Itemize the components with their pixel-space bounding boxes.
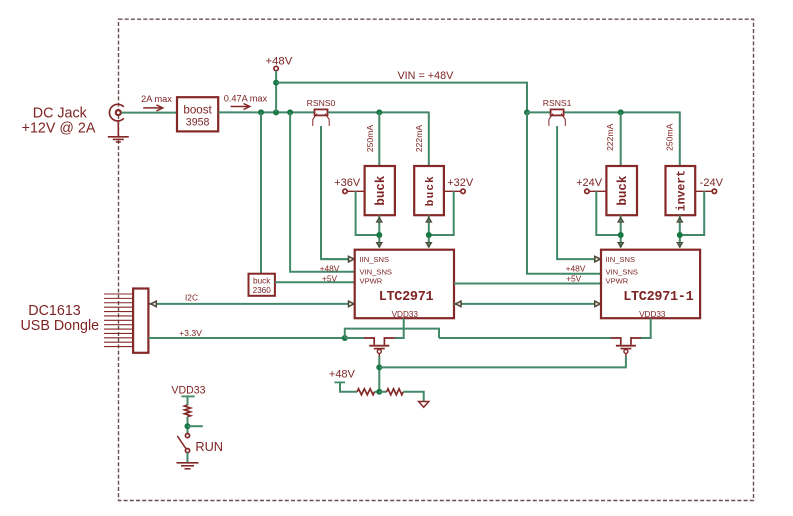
wire R3 to switch xyxy=(187,417,189,434)
arrow 2A max xyxy=(143,105,163,111)
svg-text:IIN_SNS: IIN_SNS xyxy=(360,255,390,264)
svg-text:I2C: I2C xyxy=(185,293,198,303)
wire +3.3V from dongle xyxy=(148,337,344,339)
svg-text:boost: boost xyxy=(183,104,212,117)
arrow I2C at dongle xyxy=(151,301,157,307)
resistor R3 xyxy=(185,405,191,417)
svg-text:+36V: +36V xyxy=(334,177,361,189)
label +5V (VPWR U1) xyxy=(322,273,338,283)
ground (divider) xyxy=(419,402,429,408)
wire VIN_SNS U6 +48V xyxy=(527,112,601,273)
terminal +24V xyxy=(576,177,606,193)
label DC1613 USB Dongle xyxy=(20,303,99,334)
label 250mA (U8) xyxy=(665,123,675,150)
svg-text:LTC2971: LTC2971 xyxy=(379,290,434,305)
node junction VIN/RSNS1 xyxy=(524,109,530,115)
arrow into U8 bottom xyxy=(677,218,682,222)
svg-text:+48V: +48V xyxy=(265,55,292,67)
wire +36V sense tap xyxy=(356,191,380,235)
boost converter U2 (LT3958) xyxy=(177,97,218,131)
terminal +36V xyxy=(334,177,364,193)
svg-text:USB Dongle: USB Dongle xyxy=(20,318,99,334)
svg-text:+48V: +48V xyxy=(320,264,340,274)
wire RSNS1 sense line xyxy=(557,126,597,259)
wire jack to boost xyxy=(121,112,177,114)
transistor Q2 xyxy=(611,337,642,356)
IC U6 LTC2971-1 xyxy=(601,250,700,319)
wire switch to ground xyxy=(187,453,189,463)
board outline (dashed border) xyxy=(119,19,754,500)
label +48V (VIN_SNS U1) xyxy=(320,264,340,274)
arrow bus into U1 xyxy=(456,301,462,307)
label 2A max xyxy=(141,94,172,104)
svg-text:+12V @ 2A: +12V @ 2A xyxy=(22,121,96,137)
ground (jack) xyxy=(108,121,129,142)
wire R1 to node xyxy=(375,391,380,393)
wire -24V sense tap xyxy=(680,191,704,235)
svg-text:+48V: +48V xyxy=(329,368,356,380)
label RUN xyxy=(195,439,223,454)
label +5V (VPWR U6) xyxy=(566,274,582,284)
buck converter U5 (LTM4625/2360) xyxy=(249,274,275,296)
wire node to R2 xyxy=(379,391,386,393)
transistor Q1 xyxy=(364,337,395,356)
svg-text:2A max: 2A max xyxy=(141,94,172,104)
svg-text:VPWR: VPWR xyxy=(606,276,629,285)
resistor R1 xyxy=(357,389,374,395)
resistor RSNS1 (sense) xyxy=(543,98,572,126)
wire Q1 bulk to rail xyxy=(378,356,380,392)
resistor R2 xyxy=(387,389,404,395)
switch S1 RUN xyxy=(177,434,189,453)
svg-text:+3.3V: +3.3V xyxy=(179,328,202,338)
node junction rail/VIN_SNS tap xyxy=(287,109,293,115)
wire VIN rail top xyxy=(276,83,527,113)
svg-text:222mA: 222mA xyxy=(414,125,424,152)
svg-text:222mA: 222mA xyxy=(605,123,615,150)
wire VDD33 to R3 xyxy=(187,396,189,405)
arrow IIN_SNS U1 xyxy=(349,256,355,262)
svg-text:invert: invert xyxy=(676,170,689,211)
node junction VOUT2 sense xyxy=(618,232,624,238)
svg-text:VDD33: VDD33 xyxy=(171,384,205,396)
arrow I2C into U1 xyxy=(349,301,355,307)
arrow IIN_SNS U6 xyxy=(595,256,601,262)
wire invert U8 feed xyxy=(679,112,681,167)
wire +24V sense tap xyxy=(596,191,620,235)
wire buck2360 feed xyxy=(260,112,262,273)
label VIN = +48V xyxy=(397,70,454,82)
svg-text:0.47A max: 0.47A max xyxy=(224,94,268,104)
inverting converter U8 xyxy=(666,166,696,215)
wire RSNS0 sense line xyxy=(321,126,351,259)
wire VPWR U6 +5V xyxy=(454,283,601,285)
svg-text:3958: 3958 xyxy=(186,116,210,128)
svg-text:buck: buck xyxy=(253,276,271,285)
wire IIN_SNS into U1 xyxy=(321,258,349,260)
svg-text:RSNS0: RSNS0 xyxy=(307,98,336,108)
wire I2C bus U1-U6 xyxy=(454,303,599,305)
svg-text:LTC2971-1: LTC2971-1 xyxy=(623,290,693,305)
node junction RUN xyxy=(185,423,191,429)
wire VPWR +5V xyxy=(275,281,355,283)
arrow into U6 VSNS1 xyxy=(677,243,682,247)
arrow into U6 VSNS0 xyxy=(618,243,623,247)
connector J2 DC1613 ribbon xyxy=(104,289,148,353)
svg-text:VIN = +48V: VIN = +48V xyxy=(397,70,454,82)
arrow into LTC2971 VSNS0 xyxy=(377,243,382,247)
terminal +48V xyxy=(265,55,292,70)
wire RUN stub xyxy=(188,425,203,427)
node junction 3.3V rail / Q1 xyxy=(342,335,348,341)
wire +48V to R1 xyxy=(340,382,357,391)
wire I2C dongle to U1 xyxy=(148,303,352,305)
wire Q1 gate-side stub xyxy=(345,337,365,339)
wire 3.3V bypass hump xyxy=(345,329,439,338)
svg-text:VDD33: VDD33 xyxy=(639,310,666,319)
wire U8 to LTC2971-1 xyxy=(679,215,681,247)
resistor RSNS0 (sense) xyxy=(307,98,336,126)
wire U4 to LTC2971 xyxy=(428,215,430,247)
svg-text:2360: 2360 xyxy=(253,286,272,295)
node junction VOUT1 sense xyxy=(426,232,432,238)
svg-text:buck: buck xyxy=(374,175,388,206)
svg-text:VIN_SNS: VIN_SNS xyxy=(360,268,393,277)
node junction rail/buck U7 feed xyxy=(618,109,624,115)
buck converter U3 xyxy=(365,166,395,215)
node junction rail/buck1 feed xyxy=(376,109,382,115)
terminal -24V xyxy=(695,177,723,193)
svg-text:-24V: -24V xyxy=(700,177,724,189)
wire +32V sense tap xyxy=(429,191,454,235)
arrow into LTC2971 VSNS1 xyxy=(426,243,431,247)
svg-text:+32V: +32V xyxy=(447,177,474,189)
svg-text:RUN: RUN xyxy=(195,439,223,454)
svg-text:buck: buck xyxy=(425,175,437,206)
label 0.47A max xyxy=(224,94,268,104)
svg-text:RSNS1: RSNS1 xyxy=(543,98,572,108)
arrow 0.47A max xyxy=(231,104,250,110)
svg-text:VIN_SNS: VIN_SNS xyxy=(606,268,639,277)
svg-text:DC1613: DC1613 xyxy=(28,303,81,319)
svg-text:VDD33: VDD33 xyxy=(392,310,419,319)
svg-text:VPWR: VPWR xyxy=(360,276,383,285)
wire Q2 to VDD33 U6 xyxy=(641,318,651,338)
node junction rail/buck2360 tap xyxy=(258,109,264,115)
supply VDD33 xyxy=(171,384,205,396)
svg-text:buck: buck xyxy=(616,175,630,206)
supply +48V (pullup) xyxy=(329,368,356,382)
label 222mA (U4) xyxy=(414,125,424,152)
node junction rail/+48V terminal xyxy=(273,109,279,115)
wire Q1 to VDD33 U1 xyxy=(395,318,404,338)
svg-text:+48V: +48V xyxy=(566,264,586,274)
wire buck U4 feed xyxy=(428,112,430,167)
arrow into U3 bottom xyxy=(377,218,382,222)
wire bulk rail Q1-Q2 xyxy=(379,356,626,367)
arrow bus into U6 xyxy=(595,301,601,307)
IC U1 LTC2971 xyxy=(355,250,454,319)
svg-text:IIN_SNS: IIN_SNS xyxy=(606,255,636,264)
connector J1 DC jack xyxy=(109,104,123,121)
svg-text:DC Jack: DC Jack xyxy=(33,105,88,121)
label +48V (VIN_SNS U6) xyxy=(566,264,586,274)
wire 3.3V rail to Q2 xyxy=(439,337,611,339)
node junction VOUT3 sense xyxy=(677,232,683,238)
svg-text:+24V: +24V xyxy=(576,177,603,189)
wire buck U7 feed xyxy=(620,112,622,166)
arrow into U7 bottom xyxy=(618,218,623,222)
label DC Jack +12V @ 2A xyxy=(22,105,96,136)
buck converter U4 xyxy=(414,166,444,215)
wire RSNS1 rail xyxy=(527,111,680,113)
node junction VIN rail xyxy=(273,80,279,86)
wire buck U3 feed xyxy=(378,112,380,166)
svg-text:250mA: 250mA xyxy=(665,123,675,150)
label I2C xyxy=(185,293,198,303)
wire VIN_SNS tap +48V xyxy=(290,112,355,271)
wire U7 to LTC2971-1 xyxy=(620,215,622,247)
label 250mA (U3) xyxy=(365,125,375,152)
wire R2 to ground xyxy=(403,392,424,402)
svg-text:250mA: 250mA xyxy=(365,125,375,152)
node junction VOUT0 sense xyxy=(376,232,382,238)
ground (RUN) xyxy=(177,463,199,469)
buck converter U7 xyxy=(606,166,637,215)
label 222mA (U7) xyxy=(605,123,615,150)
node junction divider xyxy=(376,389,382,395)
terminal +32V xyxy=(444,177,474,193)
label +3.3V xyxy=(179,328,202,338)
arrow into U4 bottom xyxy=(426,218,431,222)
svg-text:+5V: +5V xyxy=(322,273,338,283)
svg-text:+5V: +5V xyxy=(566,274,582,284)
wire U3 to LTC2971 xyxy=(378,215,380,247)
wire main 48V rail xyxy=(218,111,429,113)
node junction bulk rail xyxy=(376,364,382,370)
wire +48V terminal drop xyxy=(275,71,277,113)
